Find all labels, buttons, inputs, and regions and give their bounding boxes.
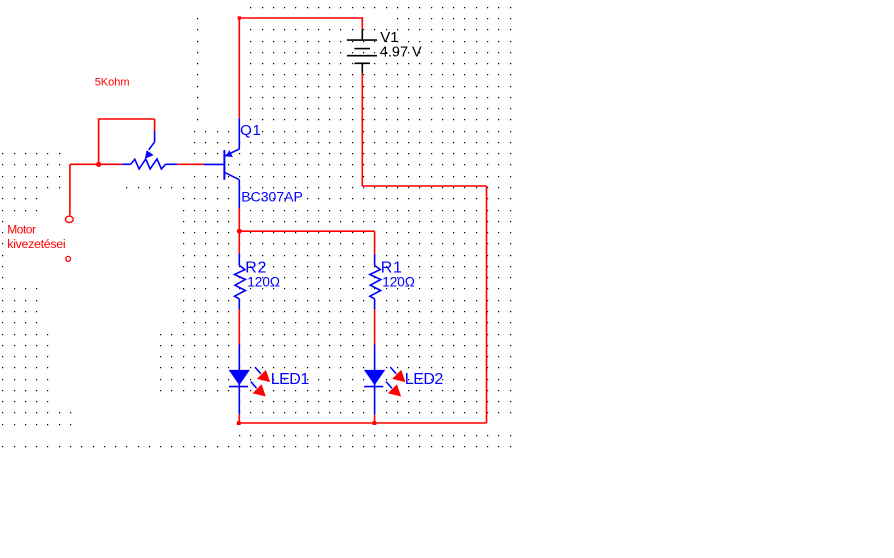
svg-text:BC307AP: BC307AP — [241, 189, 302, 205]
terminal: motor lead 2 open circle — [66, 256, 71, 261]
label Motor kivezetesei — [7, 222, 65, 251]
LED1 emission arrow 1 — [255, 367, 270, 382]
label Q1 — [240, 122, 262, 139]
svg-text:LED1: LED1 — [271, 371, 310, 388]
LED1 emission arrow 2 — [251, 382, 266, 397]
svg-text:kivezetései: kivezetései — [7, 237, 65, 251]
junction node B (Q1 emitter / R split) — [237, 229, 242, 234]
wire: bottom rail — [239, 422, 486, 424]
wire: LED1 bottom red segment — [238, 414, 240, 423]
svg-text:Motor: Motor — [7, 222, 36, 236]
LED2 emission arrow 2 — [386, 382, 401, 397]
wire: horizontal to right rail — [362, 185, 486, 187]
value 120 ohm (R2) — [247, 274, 280, 289]
label BC307AP — [241, 189, 302, 205]
junction node A (pot loop) — [96, 162, 101, 167]
wire: right rail vertical — [486, 186, 488, 423]
svg-text:120Ω: 120Ω — [382, 274, 415, 289]
wire: R1 top lead — [374, 231, 376, 254]
resistor R2 — [235, 253, 246, 309]
label R2 — [245, 260, 267, 277]
svg-text:120Ω: 120Ω — [247, 274, 280, 289]
wire: pot top loop horizontal — [99, 118, 155, 120]
svg-text:Q1: Q1 — [240, 122, 262, 139]
wire: Q1 emitter down to node — [238, 208, 240, 254]
battery V1 — [347, 29, 377, 73]
junction node C (LED1 bottom) — [237, 421, 241, 425]
junction: top rail corner — [238, 16, 241, 19]
label R1 — [381, 260, 403, 277]
wire: motor terminal vertical — [69, 164, 71, 215]
wire: wiper top red — [154, 119, 156, 131]
label LED2 — [405, 371, 444, 388]
label LED1 — [271, 371, 310, 388]
wire: LED2 bottom red segment — [374, 414, 376, 423]
svg-text:5Kohm: 5Kohm — [95, 77, 130, 89]
value 4.97 V — [380, 45, 422, 61]
transistor Q1 BC307AP (PNP) — [204, 118, 239, 208]
potentiometer 5Kohm — [122, 131, 178, 169]
junction node D (LED2 bottom) — [373, 421, 377, 425]
label 5Kohm — [95, 77, 130, 89]
Q1 emitter arrow — [226, 150, 233, 157]
wire: V1 top lead red — [361, 17, 363, 29]
wire: V1 bottom to corner — [361, 73, 363, 186]
resistor R1 — [370, 254, 381, 309]
wire top: collector rail from Q1 to V1 — [70, 17, 487, 423]
pot wiper arrow — [145, 150, 154, 158]
wire: Q1 collector vertical — [238, 17, 240, 118]
wire: R1 bottom red segment — [374, 309, 376, 344]
svg-text:LED2: LED2 — [405, 371, 444, 388]
LED2 emission arrow 1 — [390, 367, 405, 382]
wire: pot loop left vertical — [98, 118, 100, 164]
label V1 — [380, 29, 398, 46]
terminal: motor lead 1 open circle — [65, 216, 73, 222]
wire: R2 bottom red segment — [238, 309, 240, 344]
wire: pot to base — [177, 163, 204, 165]
LED1 — [229, 345, 250, 415]
LED2 — [364, 345, 385, 415]
wire: pot left horizontal — [70, 163, 122, 165]
svg-text:4.97 V: 4.97 V — [380, 45, 422, 61]
wire: node to R1 branch horizontal — [239, 230, 374, 232]
value 120 ohm (R1) — [382, 274, 415, 289]
